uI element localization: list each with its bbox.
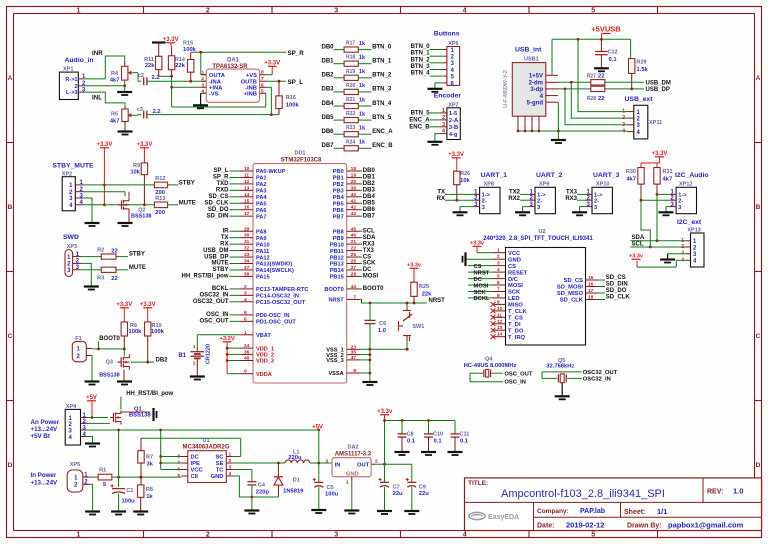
svg-text:GND: GND bbox=[346, 471, 359, 477]
svg-text:C5: C5 bbox=[327, 485, 334, 491]
wire OSC_OUT to DD1 bbox=[199, 319, 240, 325]
svg-text:10k: 10k bbox=[130, 170, 140, 176]
svg-text:Date:: Date: bbox=[537, 523, 555, 530]
svg-text:4: 4 bbox=[497, 267, 500, 273]
wire XP13 pin3 gnd bbox=[668, 254, 686, 259]
svg-text:+INB: +INB bbox=[244, 92, 257, 98]
svg-text:100k: 100k bbox=[286, 103, 300, 109]
svg-text:TX3: TX3 bbox=[566, 190, 578, 196]
wire SD_DIN from U2 bbox=[598, 282, 628, 288]
wire TX3 to XP10 bbox=[566, 190, 586, 196]
svg-text:1k: 1k bbox=[359, 41, 366, 47]
resistor R3 22 bbox=[81, 267, 128, 282]
wire INR net bbox=[83, 56, 125, 79]
ground under DA1 -VS bbox=[193, 93, 208, 108]
svg-text:R19: R19 bbox=[346, 69, 355, 75]
svg-text:STBY_MUTE: STBY_MUTE bbox=[52, 163, 94, 170]
svg-text:PA9: PA9 bbox=[256, 236, 266, 242]
capacitor C1 100u bbox=[111, 477, 136, 511]
svg-text:3: 3 bbox=[325, 458, 328, 464]
svg-text:43: 43 bbox=[351, 211, 357, 217]
svg-text:RESET: RESET bbox=[508, 270, 528, 276]
ground under R5 bbox=[118, 122, 133, 135]
svg-text:3: 3 bbox=[497, 261, 500, 267]
svg-text:2: 2 bbox=[206, 8, 210, 15]
svg-text:RX: RX bbox=[437, 196, 445, 202]
svg-text:46: 46 bbox=[351, 233, 357, 239]
svg-text:PA5: PA5 bbox=[256, 201, 266, 207]
svg-text:DC: DC bbox=[474, 277, 483, 283]
svg-text:R25: R25 bbox=[419, 284, 429, 290]
svg-text:2: 2 bbox=[375, 458, 378, 464]
wire SD_CLK to DD1 bbox=[204, 200, 240, 206]
svg-text:PA8: PA8 bbox=[256, 229, 266, 235]
svg-text:PA3: PA3 bbox=[256, 189, 266, 195]
svg-text:100k: 100k bbox=[151, 329, 165, 335]
svg-text:1: 1 bbox=[244, 330, 247, 336]
svg-text:R7: R7 bbox=[146, 455, 153, 461]
svg-text:MUTE: MUTE bbox=[212, 261, 229, 267]
svg-text:ENC_A: ENC_A bbox=[409, 117, 430, 123]
svg-text:2: 2 bbox=[229, 458, 232, 464]
sheet cell bbox=[624, 507, 667, 516]
svg-text:+5V: +5V bbox=[312, 424, 323, 430]
svg-text:SD_CLK: SD_CLK bbox=[606, 295, 631, 301]
svg-text:INL: INL bbox=[92, 95, 102, 102]
node HH_RST/Bl_pow bbox=[126, 391, 173, 397]
svg-text:R26: R26 bbox=[460, 171, 470, 177]
node SP_R bbox=[288, 50, 305, 57]
wire SDA vertical bbox=[656, 194, 659, 242]
svg-text:PB9: PB9 bbox=[333, 236, 344, 242]
svg-text:1.0: 1.0 bbox=[378, 328, 386, 334]
svg-text:VDD_1: VDD_1 bbox=[256, 346, 274, 352]
svg-text:23: 23 bbox=[351, 344, 357, 350]
svg-text:11: 11 bbox=[497, 312, 502, 318]
svg-text:PB11: PB11 bbox=[330, 249, 344, 255]
wire VDD rail bbox=[226, 347, 240, 374]
wire SW1 C6 to VSS bbox=[369, 341, 410, 350]
resistor R21 1k bbox=[321, 97, 391, 109]
svg-text:32.768kHz: 32.768kHz bbox=[546, 364, 574, 370]
svg-text:SDA: SDA bbox=[632, 235, 645, 241]
svg-text:22u: 22u bbox=[419, 491, 429, 497]
svg-text:VSS_3: VSS_3 bbox=[326, 358, 343, 364]
svg-text:SD_CLK: SD_CLK bbox=[560, 298, 584, 304]
svg-text:5: 5 bbox=[497, 274, 500, 280]
svg-text:16: 16 bbox=[244, 205, 250, 211]
wire SCL to XP13 bbox=[631, 246, 686, 248]
svg-text:PB12: PB12 bbox=[330, 255, 344, 261]
svg-text:SDA: SDA bbox=[363, 235, 376, 241]
ground under XP5 bbox=[85, 512, 100, 515]
svg-text:T_CLK: T_CLK bbox=[508, 309, 527, 315]
svg-text:0.1: 0.1 bbox=[460, 439, 469, 445]
wire CS to U2 bbox=[468, 264, 493, 270]
frame row ticks left bbox=[7, 143, 14, 401]
wire SC to top loop bbox=[233, 456, 241, 458]
svg-text:C7: C7 bbox=[393, 484, 400, 490]
svg-text:PC14-OSC32_IN: PC14-OSC32_IN bbox=[256, 294, 299, 300]
frame row letters left bbox=[8, 75, 13, 469]
ground under Q5 bbox=[555, 396, 570, 399]
resistor R10 100k bbox=[145, 322, 165, 362]
svg-text:10k: 10k bbox=[460, 178, 470, 184]
svg-text:GND: GND bbox=[508, 257, 521, 263]
svg-text:SCL: SCL bbox=[363, 228, 375, 234]
svg-text:+3.3V: +3.3V bbox=[136, 142, 152, 148]
svg-text:OUTA: OUTA bbox=[209, 73, 226, 79]
svg-text:U2: U2 bbox=[538, 229, 545, 235]
svg-text:8: 8 bbox=[353, 368, 356, 374]
wire R11 R14 bottoms bbox=[159, 75, 173, 89]
svg-text:Encoder: Encoder bbox=[434, 93, 462, 100]
node SP_L bbox=[288, 79, 304, 86]
ground under XP3 bbox=[84, 287, 99, 290]
wire IR to DD1 bbox=[223, 228, 241, 234]
svg-text:+13...24V: +13...24V bbox=[31, 480, 59, 487]
resistor R18 1k bbox=[321, 55, 391, 67]
svg-text:1.0: 1.0 bbox=[733, 487, 743, 496]
svg-text:R23: R23 bbox=[346, 125, 355, 131]
svg-text:3: 3 bbox=[229, 465, 232, 471]
svg-text:18: 18 bbox=[351, 166, 357, 172]
wire RX to DD1 bbox=[220, 241, 240, 247]
potentiometer R4 4k7 bbox=[110, 62, 133, 84]
resistor R1 5 bbox=[90, 468, 112, 489]
wire U1 VIN feed bbox=[159, 430, 181, 470]
svg-text:R8: R8 bbox=[146, 487, 153, 493]
power +3.3V at R10 bbox=[140, 302, 156, 322]
ground under DA2 bbox=[344, 511, 359, 514]
wire RX to XP8 bbox=[437, 196, 474, 202]
svg-text:OSC_OUT: OSC_OUT bbox=[199, 319, 228, 325]
svg-text:DB5: DB5 bbox=[363, 200, 376, 206]
svg-text:0.1: 0.1 bbox=[407, 439, 416, 445]
svg-text:34: 34 bbox=[244, 259, 250, 265]
svg-text:-INA: -INA bbox=[209, 79, 222, 85]
svg-text:C9: C9 bbox=[419, 484, 426, 490]
ground under XP8 bbox=[453, 207, 474, 216]
frame column ticks bottom bbox=[144, 531, 658, 538]
svg-text:+5V: +5V bbox=[86, 395, 97, 401]
svg-text:Sheet:: Sheet: bbox=[624, 509, 645, 516]
wire XP2 pin2 to Q2 bbox=[83, 192, 125, 197]
svg-text:PB4: PB4 bbox=[333, 195, 345, 201]
wire BOOT0 from DD1 bbox=[360, 286, 384, 292]
svg-text:R21: R21 bbox=[346, 97, 355, 103]
svg-text:T_DI: T_DI bbox=[508, 322, 521, 328]
node SCL bbox=[632, 242, 644, 248]
svg-text:17: 17 bbox=[244, 211, 250, 217]
svg-text:SD_DO: SD_DO bbox=[208, 207, 229, 213]
svg-text:1: 1 bbox=[497, 248, 500, 254]
svg-text:UART_3: UART_3 bbox=[593, 172, 620, 179]
wire USB_DP to DD1 bbox=[204, 254, 240, 260]
svg-text:STM32F103C8: STM32F103C8 bbox=[281, 158, 322, 164]
wire CII node bbox=[140, 476, 143, 479]
capacitor C4 220p bbox=[233, 470, 270, 498]
svg-text:L->3: L->3 bbox=[66, 90, 77, 96]
svg-text:SD_DO: SD_DO bbox=[606, 288, 627, 294]
svg-text:19: 19 bbox=[351, 172, 357, 178]
ground under XP2 bbox=[85, 223, 100, 226]
power +5VUSB bbox=[591, 25, 621, 40]
ground bar at U2 GND bbox=[463, 252, 494, 266]
wire +5V rail XP4 pin3 bbox=[87, 429, 320, 432]
svg-text:22: 22 bbox=[111, 248, 117, 254]
svg-text:Drawn By:: Drawn By: bbox=[627, 523, 662, 530]
svg-text:IPE: IPE bbox=[191, 461, 200, 467]
connector XP12 I2C_Audio bbox=[670, 172, 709, 214]
EasyEDA logo bbox=[469, 512, 519, 521]
svg-text:12: 12 bbox=[244, 179, 250, 185]
wire USB_DM to DD1 bbox=[203, 248, 240, 254]
svg-text:2-: 2- bbox=[537, 198, 542, 204]
svg-text:29: 29 bbox=[244, 226, 250, 232]
wire DC from DD1 bbox=[360, 267, 372, 273]
power +3.3v at U2 VCC bbox=[470, 241, 493, 253]
svg-text:PB15: PB15 bbox=[330, 275, 344, 281]
ground under C10 bbox=[421, 452, 436, 455]
svg-text:0.1: 0.1 bbox=[609, 57, 618, 63]
capacitor C5 100u bbox=[313, 463, 339, 510]
node STBY bbox=[179, 180, 195, 186]
svg-text:MOSI: MOSI bbox=[363, 274, 379, 280]
svg-text:In Power: In Power bbox=[31, 472, 57, 479]
svg-text:1: 1 bbox=[193, 344, 196, 350]
svg-text:R4: R4 bbox=[111, 71, 119, 77]
svg-text:22: 22 bbox=[351, 246, 357, 252]
svg-text:1k: 1k bbox=[359, 55, 366, 61]
svg-text:INR: INR bbox=[92, 50, 103, 57]
svg-text:27: 27 bbox=[351, 265, 357, 271]
svg-text:XP10: XP10 bbox=[596, 181, 609, 187]
svg-text:+3.3v: +3.3v bbox=[470, 241, 485, 247]
svg-text:VCC: VCC bbox=[191, 468, 204, 474]
resistor R26 10k bbox=[454, 171, 471, 202]
svg-text:200: 200 bbox=[155, 190, 165, 196]
svg-text:7: 7 bbox=[497, 287, 500, 293]
pushbutton SW1 bbox=[399, 303, 425, 341]
svg-text:DC: DC bbox=[191, 455, 200, 461]
svg-text:DB7: DB7 bbox=[321, 143, 334, 149]
svg-text:BOOT0: BOOT0 bbox=[99, 336, 120, 342]
svg-text:MOSI: MOSI bbox=[508, 283, 523, 289]
ground under C11 bbox=[448, 452, 463, 455]
svg-text:HH_RST/Bl_pow: HH_RST/Bl_pow bbox=[126, 391, 173, 397]
svg-text:BTN_0: BTN_0 bbox=[372, 44, 392, 50]
svg-text:RX: RX bbox=[220, 241, 228, 247]
svg-text:BTN_5: BTN_5 bbox=[411, 110, 431, 116]
svg-text:SCK: SCK bbox=[474, 290, 487, 296]
svg-text:DB4: DB4 bbox=[363, 194, 376, 200]
capacitor C7 22u bbox=[379, 464, 404, 510]
battery B1 CR1220 bbox=[178, 344, 211, 376]
svg-text:VDDA: VDDA bbox=[256, 372, 272, 378]
svg-text:AMS1117-3.3: AMS1117-3.3 bbox=[335, 451, 372, 457]
svg-text:48: 48 bbox=[244, 356, 250, 362]
connector XP4 An Power bbox=[65, 404, 87, 445]
svg-text:1N5819: 1N5819 bbox=[283, 489, 304, 495]
svg-text:MISO: MISO bbox=[508, 303, 523, 309]
wire XP11 pin3 dp bbox=[565, 89, 627, 125]
power +5V at XP4 bbox=[86, 395, 97, 419]
node MUTE bbox=[179, 200, 196, 206]
svg-text:NRST: NRST bbox=[328, 298, 344, 304]
svg-text:SP_L: SP_L bbox=[288, 79, 304, 86]
node STBY at R2 bbox=[129, 251, 145, 257]
svg-text:USB_DP: USB_DP bbox=[646, 87, 670, 93]
resistor R11 22k bbox=[144, 43, 162, 76]
svg-text:PA15: PA15 bbox=[256, 275, 270, 281]
svg-text:1: 1 bbox=[346, 479, 349, 485]
svg-text:31: 31 bbox=[244, 239, 250, 245]
svg-text:24: 24 bbox=[244, 343, 250, 349]
svg-text:2-dm: 2-dm bbox=[529, 81, 543, 87]
wire F1 pin2 gnd bbox=[91, 356, 92, 382]
svg-text:TX3: TX3 bbox=[363, 248, 375, 254]
svg-text:TITLE:: TITLE: bbox=[468, 480, 488, 487]
wire +INA net bbox=[172, 86, 201, 88]
svg-text:SP_R: SP_R bbox=[288, 50, 305, 57]
svg-text:T_DO: T_DO bbox=[508, 328, 524, 334]
wire ENC_A to XP7 bbox=[409, 117, 440, 123]
svg-text:PA11: PA11 bbox=[256, 249, 269, 255]
resistor R7 3k bbox=[138, 438, 154, 485]
svg-text:4k7: 4k7 bbox=[626, 177, 636, 183]
wire TX to DD1 bbox=[221, 235, 240, 241]
wire TX to XP8 bbox=[437, 190, 473, 196]
wire RX2 to XP9 bbox=[508, 196, 529, 202]
svg-text:IR: IR bbox=[223, 228, 230, 234]
resistor R29 1.5k bbox=[629, 59, 649, 89]
svg-text:PA13(SWDIO): PA13(SWDIO) bbox=[256, 262, 292, 268]
regulator DA2 AMS1117-3.3 bbox=[325, 445, 378, 486]
label An Power bbox=[31, 419, 60, 440]
wire XP11 pin2 dm bbox=[571, 82, 627, 118]
svg-text:MC34063ADR2G: MC34063ADR2G bbox=[182, 445, 229, 451]
svg-text:VBAT: VBAT bbox=[256, 333, 271, 339]
svg-text:ENC_B: ENC_B bbox=[409, 124, 430, 130]
svg-text:Buttons: Buttons bbox=[434, 30, 460, 37]
svg-text:7: 7 bbox=[353, 294, 356, 300]
wire HH_RST/Bl_pow to DD1 bbox=[181, 274, 240, 280]
wire TXD to DD1 bbox=[217, 181, 241, 187]
svg-text:1k: 1k bbox=[359, 69, 366, 75]
ground at XP13 bbox=[660, 260, 675, 263]
frame column ticks top bbox=[144, 7, 658, 14]
svg-text:NRST: NRST bbox=[429, 298, 446, 304]
node USB_DM bbox=[646, 80, 671, 86]
wire SCL vertical bbox=[641, 200, 652, 248]
svg-text:CS: CS bbox=[508, 264, 516, 270]
resistor R25 22k bbox=[411, 282, 432, 303]
svg-text:15: 15 bbox=[244, 198, 250, 204]
svg-text:20: 20 bbox=[351, 179, 357, 185]
svg-text:SCK: SCK bbox=[363, 261, 376, 267]
fuse F1 bbox=[72, 336, 92, 362]
ground at VSS rail bbox=[362, 382, 377, 385]
svg-text:PA7: PA7 bbox=[256, 214, 266, 220]
resistor R23 1k bbox=[321, 125, 393, 137]
svg-text:BTN_2: BTN_2 bbox=[411, 57, 431, 63]
wire SDA to XP13 bbox=[631, 240, 686, 242]
svg-text:I2C_Audio: I2C_Audio bbox=[675, 172, 709, 179]
svg-text:DB5: DB5 bbox=[321, 115, 334, 121]
svg-text:13: 13 bbox=[244, 185, 250, 191]
svg-text:9: 9 bbox=[244, 369, 247, 375]
svg-text:22k: 22k bbox=[145, 63, 155, 69]
svg-text:C6: C6 bbox=[379, 321, 386, 327]
wire SP_R to DD1 bbox=[213, 175, 240, 181]
svg-text:3: 3 bbox=[442, 122, 445, 128]
svg-text:+3.3v: +3.3v bbox=[377, 409, 393, 415]
svg-text:OSC32_OUT: OSC32_OUT bbox=[583, 370, 618, 376]
wire RXD to DD1 bbox=[216, 188, 240, 194]
regulator U1 MC34063ADR2G bbox=[177, 438, 232, 483]
wire XP4 pin2 bbox=[87, 422, 110, 424]
svg-text:R2: R2 bbox=[97, 248, 104, 254]
svg-text:2-: 2- bbox=[594, 198, 599, 204]
svg-text:VDD_2: VDD_2 bbox=[256, 353, 274, 359]
wire 3.3V cap rail bbox=[383, 419, 455, 422]
svg-text:USB_DP: USB_DP bbox=[204, 254, 228, 260]
ground under XP6 bbox=[427, 83, 443, 92]
frame row ticks right bbox=[755, 143, 762, 401]
svg-text:3: 3 bbox=[334, 8, 338, 15]
svg-text:DB7: DB7 bbox=[363, 213, 376, 219]
svg-text:DB3: DB3 bbox=[363, 188, 376, 194]
svg-text:1k: 1k bbox=[359, 126, 366, 132]
svg-text:R3: R3 bbox=[97, 275, 104, 281]
svg-text:U-F-M5DW-Y-2: U-F-M5DW-Y-2 bbox=[503, 70, 509, 108]
transistor Q2 BSS138 bbox=[118, 192, 152, 220]
power +3.3V at R30 R31 bbox=[641, 151, 667, 168]
resistor R8 1k bbox=[138, 485, 154, 511]
svg-text:1: 1 bbox=[77, 8, 81, 15]
svg-text:R5: R5 bbox=[111, 112, 118, 118]
resistor R6 100k bbox=[121, 322, 142, 348]
svg-text:R16: R16 bbox=[286, 95, 296, 101]
svg-text:1k: 1k bbox=[359, 111, 366, 117]
svg-text:PB0: PB0 bbox=[333, 169, 344, 175]
connector XP10 UART_3 bbox=[586, 172, 620, 214]
capacitor C12 0.1 bbox=[595, 39, 617, 67]
svg-text:papbox1@gmail.com: papbox1@gmail.com bbox=[668, 521, 744, 530]
svg-text:RXD: RXD bbox=[216, 188, 229, 194]
svg-text:T_CS: T_CS bbox=[508, 316, 523, 322]
wire SCK from DD1 bbox=[360, 261, 376, 267]
company cell bbox=[537, 508, 605, 515]
wire TX2 to XP9 bbox=[509, 190, 529, 196]
svg-text:GND: GND bbox=[211, 474, 224, 480]
svg-text:22: 22 bbox=[111, 276, 117, 282]
svg-text:PA2: PA2 bbox=[256, 182, 266, 188]
ground under XP12 bbox=[659, 207, 674, 216]
svg-text:33: 33 bbox=[244, 252, 250, 258]
svg-text:C: C bbox=[756, 333, 761, 340]
wire STBY row XP2 bbox=[83, 184, 154, 186]
wire SD_DO from U2 bbox=[598, 288, 627, 294]
svg-text:PB5: PB5 bbox=[333, 201, 344, 207]
svg-text:BTN_4: BTN_4 bbox=[411, 71, 431, 77]
wire INL net bbox=[83, 92, 125, 106]
svg-text:BTN_4: BTN_4 bbox=[372, 101, 392, 107]
wire SP_L to DD1 bbox=[213, 168, 240, 174]
svg-text:PB10: PB10 bbox=[330, 242, 344, 248]
svg-text:+3.3v: +3.3v bbox=[407, 263, 422, 269]
